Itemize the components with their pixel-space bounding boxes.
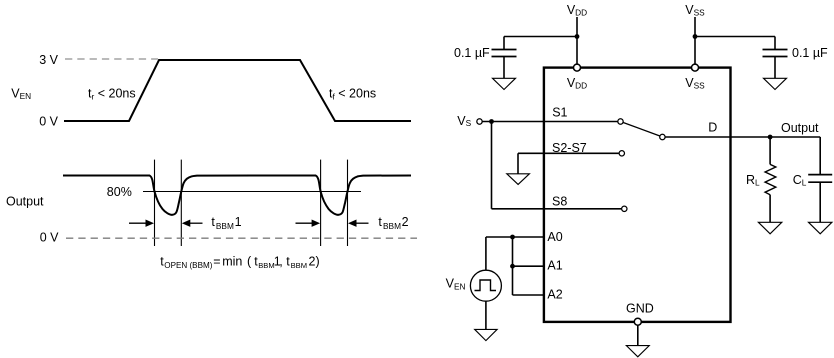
svg-text:3 V: 3 V [39,53,58,67]
svg-text:Output: Output [6,195,44,209]
svg-text:A2: A2 [547,288,562,302]
svg-text:0 V: 0 V [40,231,59,245]
svg-text:tr < 20ns: tr < 20ns [88,87,136,102]
svg-text:GND: GND [626,302,654,316]
svg-text:0.1 µF: 0.1 µF [454,46,490,60]
svg-text:tf < 20ns: tf < 20ns [329,87,376,102]
svg-text:0.1 µF: 0.1 µF [792,46,828,60]
svg-text:S1: S1 [552,106,567,120]
svg-text:Output: Output [781,121,819,135]
svg-text:A1: A1 [547,258,562,272]
svg-text:S8: S8 [552,195,567,209]
svg-text:D: D [708,121,717,135]
svg-text:0 V: 0 V [39,115,58,129]
svg-text:A0: A0 [547,230,562,244]
svg-text:80%: 80% [107,185,132,199]
